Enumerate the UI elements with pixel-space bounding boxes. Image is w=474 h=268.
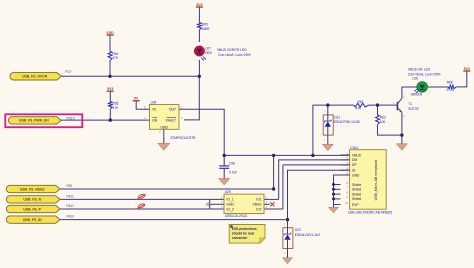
svg-text:VBUS OVRCR LED: VBUS OVRCR LED (217, 48, 248, 52)
svg-text:GND: GND (160, 125, 168, 129)
svg-text:ESDA7P60-1U1M: ESDA7P60-1U1M (334, 120, 360, 124)
svg-text:FAULT: FAULT (166, 118, 176, 122)
svg-text:R63: R63 (380, 116, 386, 120)
svg-text:USB_FS_VBUS: USB_FS_VBUS (20, 187, 45, 191)
svg-text:VBUS OK LED: VBUS OK LED (408, 68, 431, 72)
svg-text:Curr=4mA, Lum=25%: Curr=4mA, Lum=25% (218, 53, 251, 57)
svg-text:5V3: 5V3 (107, 87, 113, 91)
svg-text:GREEN: GREEN (411, 93, 423, 97)
svg-text:Shield: Shield (352, 192, 361, 196)
svg-text:Shield: Shield (352, 197, 361, 201)
svg-text:PA9: PA9 (67, 184, 73, 188)
svg-text:IO_1: IO_1 (227, 198, 234, 202)
svg-text:D21: D21 (334, 115, 340, 119)
svg-text:DP: DP (352, 163, 357, 167)
svg-text:USB_FS_OVCR: USB_FS_OVCR (22, 75, 48, 79)
svg-text:5V3: 5V3 (196, 3, 202, 7)
svg-text:560R: 560R (202, 27, 210, 31)
svg-text:5V: 5V (134, 97, 139, 101)
svg-text:PA12: PA12 (67, 204, 75, 208)
svg-text:4.7uF: 4.7uF (229, 170, 237, 174)
svg-text:USB_FS_ID: USB_FS_ID (23, 218, 42, 222)
svg-text:Shield: Shield (352, 188, 361, 192)
svg-text:GND: GND (352, 173, 360, 177)
svg-text:Curr=5mA, Lum=25%: Curr=5mA, Lum=25% (408, 72, 441, 76)
svg-text:R62: R62 (358, 100, 364, 104)
svg-text:USB uAB ZX62RD-AB-5P8(30): USB uAB ZX62RD-AB-5P8(30) (348, 211, 392, 215)
svg-text:USB_FS_N: USB_FS_N (23, 198, 41, 202)
svg-text:SOT23: SOT23 (408, 107, 418, 111)
svg-text:47K: 47K (112, 56, 119, 60)
svg-text:VBUS: VBUS (253, 203, 263, 207)
svg-text:EXP: EXP (352, 203, 359, 207)
svg-text:U34: U34 (151, 101, 157, 105)
svg-text:10K: 10K (380, 120, 387, 124)
svg-text:PG7: PG7 (65, 70, 72, 74)
svg-text:USBLC6-2SC6: USBLC6-2SC6 (225, 214, 247, 218)
svg-text:5V3: 5V3 (464, 67, 470, 71)
svg-text:47K: 47K (356, 107, 363, 111)
svg-text:STMPS2141STR: STMPS2141STR (170, 136, 196, 140)
svg-text:should be near: should be near (232, 232, 255, 236)
svg-text:USB_Micro-AB receptacle: USB_Micro-AB receptacle (374, 160, 378, 201)
svg-text:USB_FS_P: USB_FS_P (23, 207, 41, 211)
svg-text:RED: RED (205, 51, 212, 55)
svg-text:EN: EN (153, 118, 158, 122)
svg-text:DM: DM (352, 158, 357, 162)
svg-text:ESD protections: ESD protections (232, 227, 257, 231)
svg-text:R36: R36 (113, 102, 119, 106)
svg-text:PA10: PA10 (67, 215, 75, 219)
svg-text:USB_FS_PWR_EN: USB_FS_PWR_EN (19, 119, 49, 123)
svg-text:LD7: LD7 (205, 46, 211, 50)
svg-text:IO_2: IO_2 (227, 207, 234, 211)
svg-text:LD6: LD6 (412, 76, 418, 80)
svg-text:R66: R66 (447, 81, 453, 85)
svg-text:47K: 47K (113, 106, 120, 110)
svg-text:Shield: Shield (352, 183, 361, 187)
svg-text:PD10: PD10 (67, 116, 75, 120)
svg-text:T1: T1 (408, 102, 412, 106)
svg-text:IN: IN (153, 108, 157, 112)
svg-text:U29: U29 (225, 190, 231, 194)
svg-text:C58: C58 (229, 161, 235, 165)
svg-text:IO1: IO1 (256, 198, 261, 202)
svg-text:R64: R64 (112, 52, 118, 56)
svg-text:IO2: IO2 (256, 207, 261, 211)
svg-text:OUT: OUT (169, 108, 176, 112)
svg-text:270R: 270R (447, 88, 455, 92)
svg-text:CN11: CN11 (350, 146, 358, 150)
svg-text:PA11: PA11 (67, 194, 75, 198)
svg-text:VBUS: VBUS (352, 153, 362, 157)
svg-text:ESDALC6V1-1U2: ESDALC6V1-1U2 (295, 233, 321, 237)
svg-text:R65: R65 (202, 22, 208, 26)
svg-text:D22: D22 (295, 228, 301, 232)
svg-text:connector: connector (232, 236, 248, 240)
svg-text:GND: GND (227, 203, 235, 207)
